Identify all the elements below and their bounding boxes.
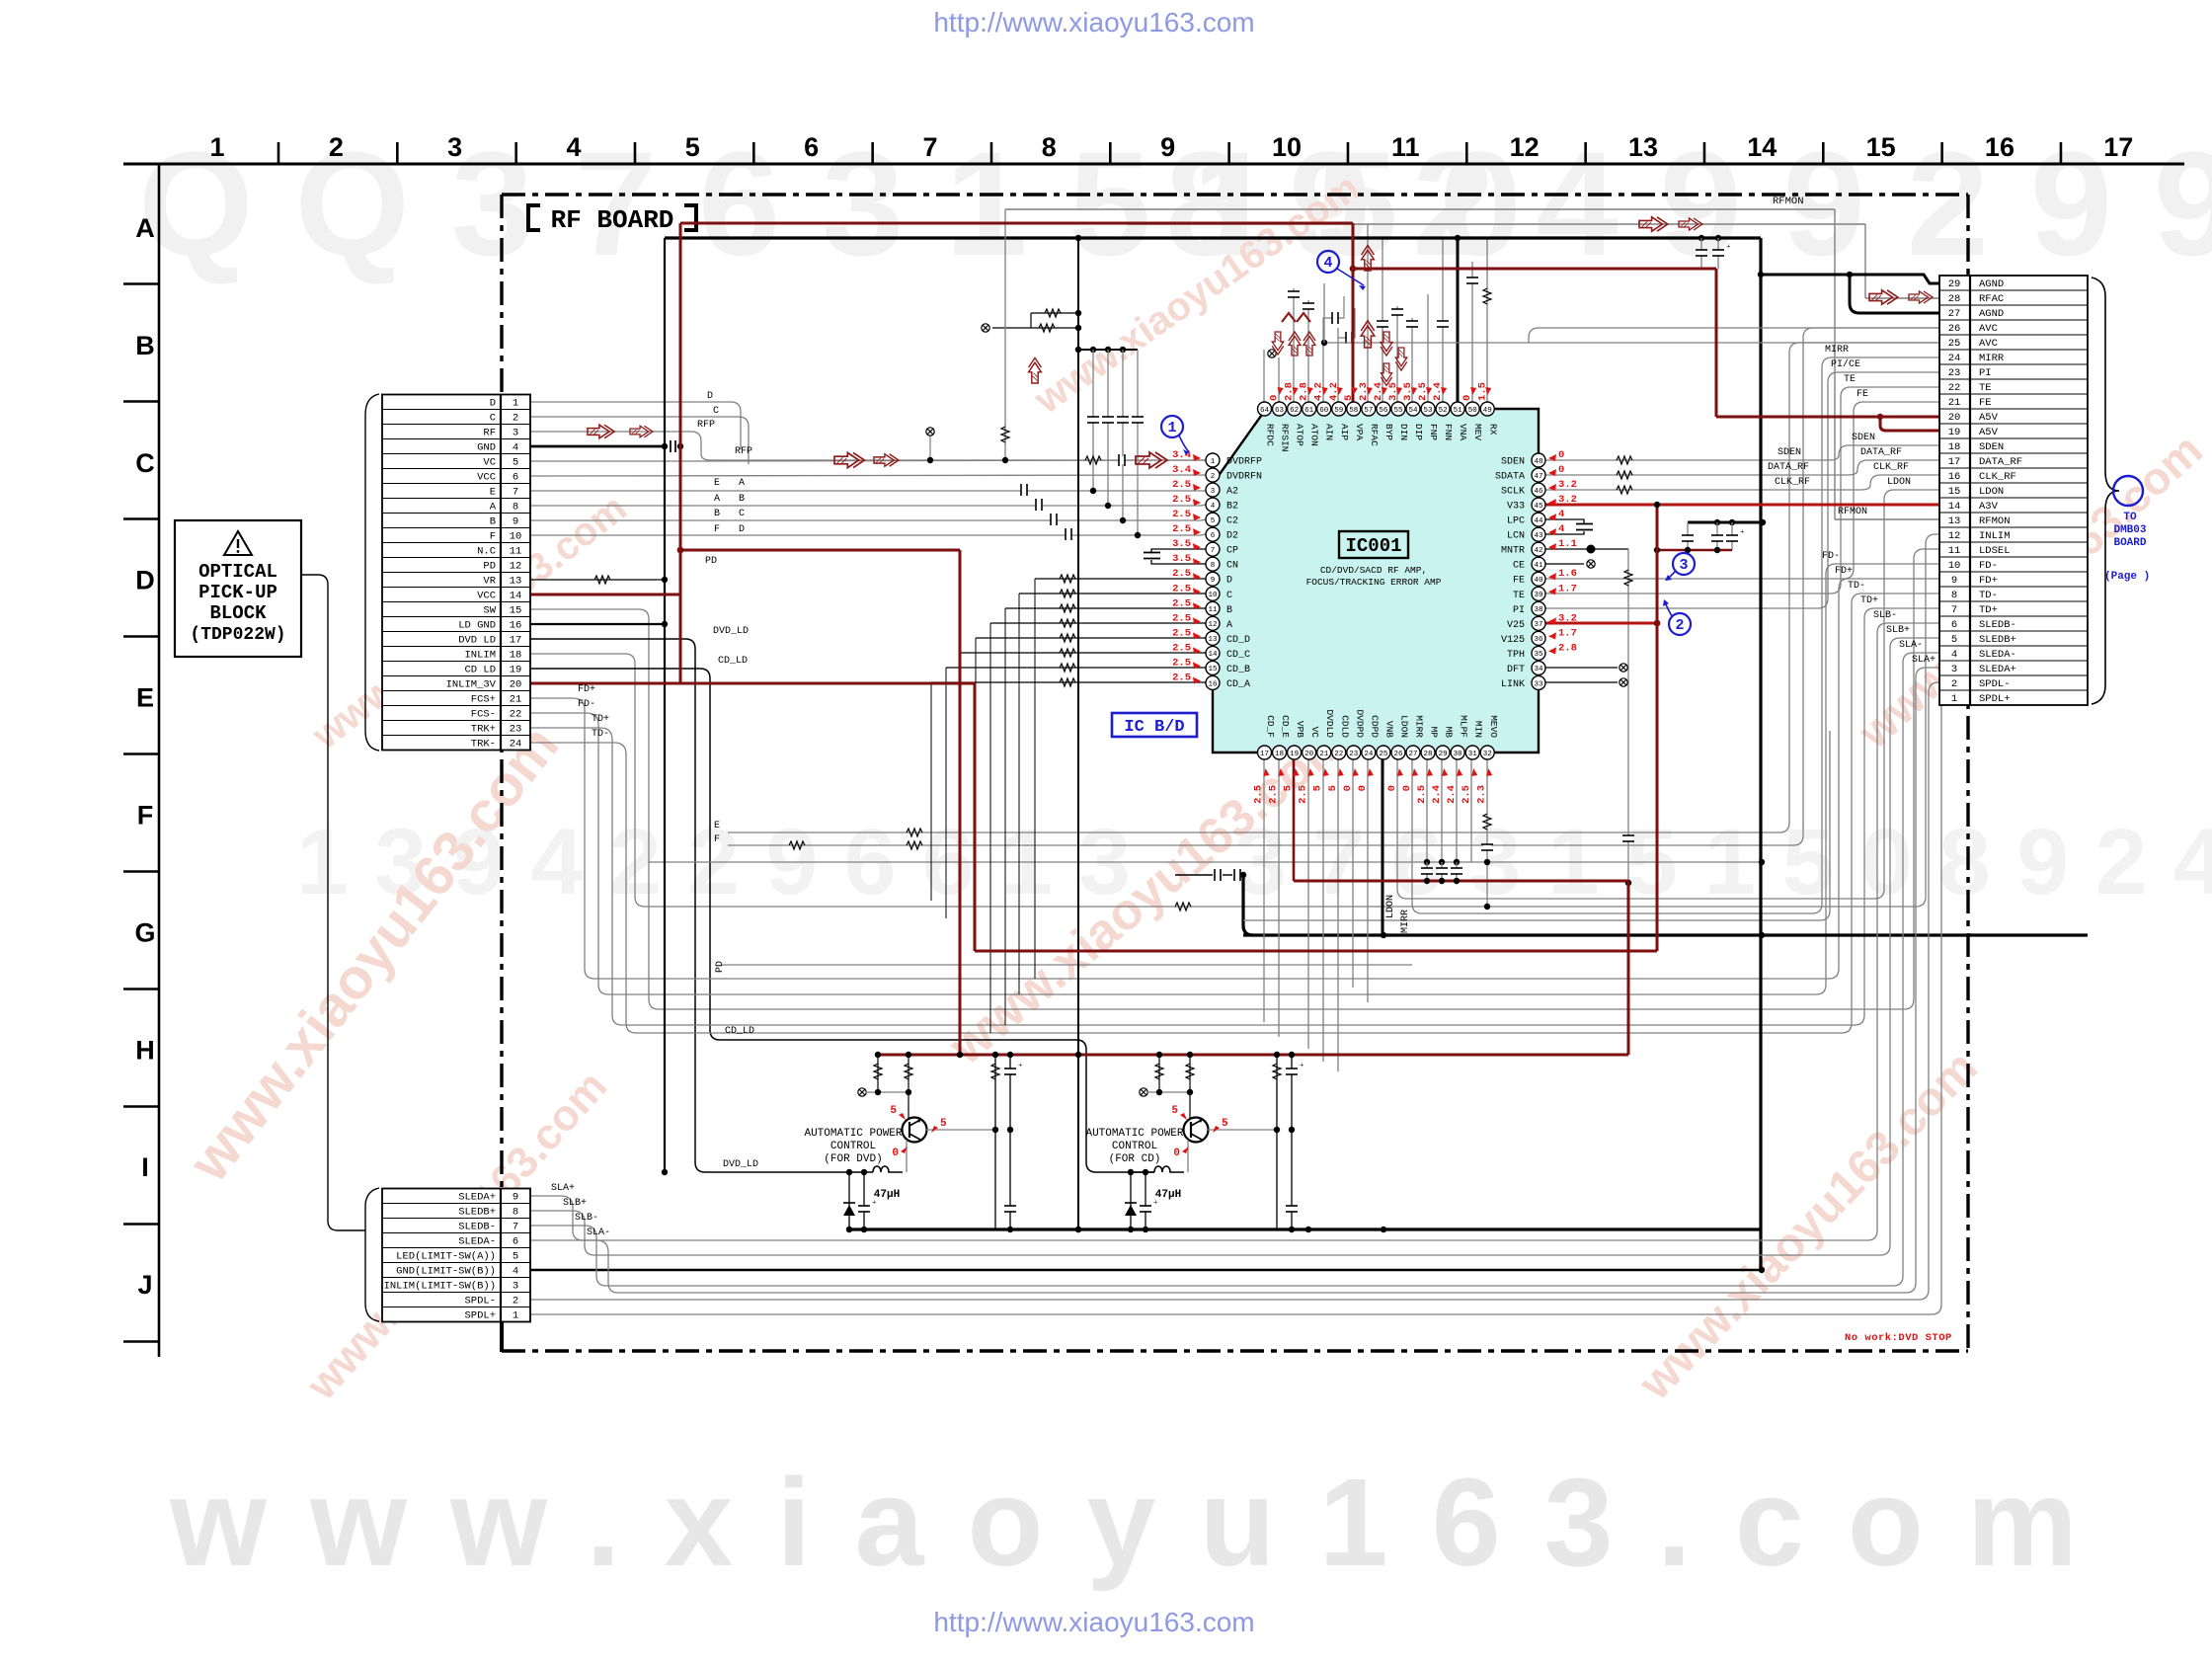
svg-text:IC001: IC001: [1345, 535, 1401, 557]
svg-text:42: 42: [1534, 547, 1542, 555]
svg-text:2.5: 2.5: [1172, 523, 1191, 535]
svg-text:29: 29: [1948, 278, 1961, 290]
svg-text:DIP: DIP: [1413, 424, 1424, 440]
svg-text:1.1: 1.1: [1558, 538, 1577, 550]
wire feeder verticals left of IC: [1034, 579, 1036, 979]
svg-text:CLK_RF: CLK_RF: [1873, 462, 1909, 473]
svg-text:E: E: [490, 487, 496, 499]
svg-text:26: 26: [1948, 323, 1961, 335]
svg-text:52: 52: [1439, 407, 1448, 415]
wire A row8 to pin4: [530, 505, 1206, 506]
svg-text:A: A: [1226, 620, 1232, 631]
svg-text:A: A: [490, 502, 497, 514]
wire MEVO pin32 drop: [1486, 759, 1488, 907]
svg-text:VC: VC: [1309, 727, 1320, 739]
svg-text:AIP: AIP: [1339, 424, 1350, 440]
wire ATOP pin62: [1293, 288, 1295, 409]
wire LD GND row16: [530, 623, 665, 625]
svg-text:(FOR CD): (FOR CD): [1109, 1153, 1161, 1165]
svg-text:V125: V125: [1501, 635, 1525, 646]
svg-text:11: 11: [1208, 606, 1218, 614]
svg-text:SLEDA+: SLEDA+: [1979, 664, 2016, 675]
svg-text:TRK+: TRK+: [471, 724, 496, 736]
svg-text:3: 3: [1679, 557, 1688, 574]
red y892 run: [1294, 880, 1628, 883]
svg-text:SLA+: SLA+: [1912, 655, 1935, 666]
svg-text:LCN: LCN: [1507, 531, 1525, 542]
svg-text:GND(LIMIT-SW(B)): GND(LIMIT-SW(B)): [396, 1266, 496, 1278]
svg-text:RF: RF: [483, 428, 496, 439]
transistor Q APC2: [1184, 1118, 1209, 1143]
cap polarized APC2: [1145, 1172, 1146, 1229]
svg-text:3: 3: [513, 1281, 518, 1293]
wire RFAC run to conn: [1128, 223, 1865, 225]
svg-text:ATON: ATON: [1309, 424, 1320, 446]
svg-text:15: 15: [1866, 132, 1896, 162]
svg-text:CN: CN: [1226, 561, 1238, 572]
svg-text:BLOCK: BLOCK: [209, 602, 267, 624]
svg-text:MB: MB: [1444, 727, 1455, 739]
svg-text:39: 39: [1534, 592, 1542, 599]
wire x1107 drop w/cap: [1092, 350, 1094, 491]
svg-text:51: 51: [1454, 407, 1463, 415]
wire DIN pin55: [1396, 306, 1398, 409]
wire IC bottom pin 17 drop: [1263, 759, 1265, 1022]
svg-text:2.5: 2.5: [1172, 583, 1191, 594]
svg-text:32: 32: [1483, 751, 1492, 758]
svg-text:No work:DVD STOP: No work:DVD STOP: [1845, 1332, 1952, 1344]
svg-text:RF BOARD: RF BOARD: [551, 205, 674, 235]
wire SW row15: [530, 549, 1939, 1009]
wire VNB pin25 drop: [1382, 759, 1384, 935]
svg-text:21: 21: [1948, 397, 1961, 409]
wire TRK- row24 to TD-: [530, 594, 1939, 1033]
svg-text:+: +: [1300, 1061, 1304, 1069]
IC001 bottom pins 17-32: [1258, 746, 1272, 759]
svg-text:FD-: FD-: [578, 699, 595, 710]
svg-text:19: 19: [1948, 427, 1961, 438]
svg-text:1: 1: [1951, 693, 1957, 705]
wire black branch to AGND27: [1850, 275, 1939, 313]
svg-text:9: 9: [513, 516, 518, 528]
svg-text:4: 4: [566, 132, 581, 162]
svg-text:53: 53: [1424, 407, 1434, 415]
svg-text:TE: TE: [1513, 591, 1525, 601]
wire IC bottom pin 20 drop: [1307, 759, 1309, 1049]
svg-text:14: 14: [1747, 132, 1777, 162]
svg-text:SLB+: SLB+: [1886, 625, 1910, 636]
wire RFAC drop to pin28: [1864, 224, 1866, 298]
svg-text:B: B: [739, 494, 745, 505]
svg-text:TE: TE: [1979, 382, 1992, 394]
wire D row1: [530, 402, 741, 449]
svg-text:FD+: FD+: [578, 684, 595, 695]
svg-text:B: B: [135, 331, 155, 360]
bypass cap cluster near V33: [1688, 521, 1763, 524]
svg-text:22: 22: [1334, 751, 1343, 758]
svg-text:CP: CP: [1226, 546, 1238, 557]
transistor Q APC1: [903, 1118, 927, 1143]
svg-text:17: 17: [2103, 132, 2133, 162]
wire AIN pin60: [1322, 328, 1324, 409]
svg-text:38: 38: [1534, 606, 1542, 614]
svg-text:AGND: AGND: [1979, 278, 2004, 290]
wire ATON pin61: [1307, 300, 1309, 409]
svg-text:0: 0: [1401, 785, 1413, 791]
wire RX pin49: [1486, 238, 1488, 409]
svg-text:DVDRFP: DVDRFP: [1226, 457, 1262, 468]
svg-text:20: 20: [510, 679, 522, 691]
svg-text:A: A: [135, 213, 155, 243]
red V25 pin37: [1545, 622, 1657, 625]
svg-text:SPDL+: SPDL+: [1979, 693, 2011, 705]
wire LDON from pin26: [1397, 490, 1939, 899]
svg-text:8: 8: [513, 1207, 518, 1219]
wire F row10 to pin6: [530, 534, 1206, 535]
red drop to A5V: [1715, 269, 1718, 417]
wire TE pin39: [1545, 387, 1939, 594]
svg-text:FD+: FD+: [1835, 566, 1853, 577]
svg-text:21: 21: [1319, 751, 1329, 758]
svg-text:F: F: [490, 531, 496, 543]
svg-text:CLK_RF: CLK_RF: [1979, 471, 2016, 483]
svg-text:SPDL-: SPDL-: [1979, 678, 2011, 690]
APC1 automatic power control: [877, 1055, 879, 1092]
svg-text:FE: FE: [1513, 576, 1525, 587]
connector CN bottom-left (sled/spindle): [382, 1189, 530, 1322]
svg-text:VC: VC: [483, 457, 496, 469]
svg-text:22: 22: [1948, 382, 1961, 394]
IC001 top pins 64-49: [1258, 402, 1272, 416]
svg-text:DVD_LD: DVD_LD: [723, 1159, 758, 1170]
svg-text:1.6: 1.6: [1558, 568, 1577, 580]
svg-text:2.3: 2.3: [1475, 785, 1487, 804]
wire x1092 long black vertical: [1077, 238, 1079, 1229]
wire RFAC pin57: [1367, 224, 1369, 409]
svg-text:0: 0: [1357, 785, 1369, 791]
svg-text:7: 7: [513, 487, 518, 499]
svg-text:25: 25: [1379, 751, 1388, 758]
svg-text:G: G: [134, 917, 155, 947]
svg-text:CE: CE: [1513, 561, 1525, 572]
red x972 drop: [959, 550, 962, 1055]
red x1678 vertical: [1656, 505, 1659, 951]
svg-text:CD_LD: CD_LD: [725, 1026, 754, 1037]
svg-text:FE: FE: [1856, 389, 1868, 400]
svg-text:2.8: 2.8: [1558, 642, 1577, 654]
svg-text:8: 8: [1042, 132, 1057, 162]
svg-text:12: 12: [1948, 530, 1961, 542]
wire IC left pin 14: [961, 652, 1206, 654]
wire RFMON top run: [1005, 208, 1835, 210]
svg-text:2.5: 2.5: [1172, 612, 1191, 624]
red top bus y226: [680, 222, 1353, 225]
svg-text:16: 16: [1948, 471, 1961, 483]
callout 1: [1161, 416, 1183, 437]
wire E row7 to pin3: [530, 490, 1206, 492]
APC2 automatic power control: [1158, 1055, 1160, 1092]
svg-text:TO: TO: [2123, 512, 2137, 523]
svg-text:+: +: [1153, 1198, 1158, 1207]
svg-text:3.5: 3.5: [1172, 553, 1191, 565]
svg-text:TRK-: TRK-: [471, 739, 496, 751]
svg-text:CD_A: CD_A: [1226, 679, 1250, 690]
svg-text:7: 7: [1951, 604, 1957, 616]
svg-text:SLEDB-: SLEDB-: [1979, 619, 2016, 631]
signal arrow into pin1: [1136, 452, 1167, 468]
red branch y272: [1353, 268, 1716, 271]
svg-text:2: 2: [329, 132, 344, 162]
svg-text:63: 63: [1275, 407, 1285, 415]
svg-text:CLK_RF: CLK_RF: [1775, 477, 1810, 488]
svg-text:RFAC: RFAC: [1369, 424, 1380, 446]
inductor 47uH APC2: [1128, 1166, 1184, 1172]
svg-text:PI: PI: [1979, 367, 1992, 379]
bracket bottom table: [365, 1188, 379, 1321]
svg-text:DFT: DFT: [1507, 665, 1525, 675]
connector CN right (to DMB03 board): [1939, 276, 2088, 705]
svg-text:2.5: 2.5: [1461, 785, 1472, 804]
svg-text:13: 13: [1208, 636, 1218, 644]
svg-text:FCS-: FCS-: [471, 709, 496, 721]
svg-text:3: 3: [447, 132, 462, 162]
ruler ticks: [277, 142, 280, 164]
svg-text:PD: PD: [715, 961, 726, 973]
svg-text:20: 20: [1304, 751, 1314, 758]
svg-text:9: 9: [1211, 577, 1216, 585]
red PD branch y557: [678, 549, 960, 552]
svg-text:6: 6: [1951, 619, 1957, 631]
wire FCS+ row21 to FD+: [530, 579, 1939, 979]
capacitor LPC/LCN bracket: [1545, 519, 1584, 523]
svg-text:11: 11: [1391, 132, 1420, 162]
svg-text:CONTROL: CONTROL: [1112, 1141, 1157, 1152]
wire CD LD row19: [530, 669, 1154, 1172]
svg-text:RX: RX: [1487, 424, 1498, 436]
svg-text:48: 48: [1534, 458, 1542, 466]
svg-text:MIRR: MIRR: [1825, 345, 1849, 356]
svg-text:DIN: DIN: [1398, 424, 1409, 440]
red VCC feed vertical x689: [679, 223, 682, 683]
red VCC row14 stub: [530, 594, 680, 596]
red APC supply bus y1068: [879, 1054, 1628, 1057]
svg-text:SPDL+: SPDL+: [464, 1310, 496, 1322]
svg-text:20: 20: [1948, 412, 1961, 424]
bracket left table: [365, 394, 379, 751]
svg-text:1: 1: [513, 398, 518, 410]
RF BOARD label: [526, 204, 539, 230]
svg-text:18: 18: [1948, 441, 1961, 453]
svg-text:LDSEL: LDSEL: [1979, 545, 2011, 557]
svg-text:FNP: FNP: [1428, 424, 1439, 440]
svg-text:SDEN: SDEN: [1501, 457, 1525, 468]
wire CE pin41: [1545, 563, 1584, 565]
svg-text:SDATA: SDATA: [1495, 472, 1525, 483]
svg-text:TD-: TD-: [1848, 581, 1865, 592]
svg-text:MIRR: MIRR: [1979, 353, 2005, 364]
wire SDEN pin48: [1545, 445, 1939, 460]
svg-text:61: 61: [1304, 407, 1314, 415]
svg-text:3: 3: [513, 428, 518, 439]
svg-text:2.5: 2.5: [1298, 785, 1309, 804]
svg-text:SLA-: SLA-: [1899, 640, 1923, 651]
svg-text:2: 2: [1951, 678, 1957, 690]
red VPB pin19 drop: [1293, 759, 1296, 881]
svg-text:3.2: 3.2: [1558, 479, 1577, 491]
svg-text:C: C: [739, 509, 745, 519]
svg-text:30: 30: [1454, 751, 1463, 758]
svg-text:FD-: FD-: [1822, 551, 1840, 562]
svg-text:13: 13: [1948, 515, 1961, 527]
svg-text:SLEDB+: SLEDB+: [1979, 634, 2016, 646]
svg-text:55: 55: [1393, 407, 1403, 415]
svg-text:VCC: VCC: [477, 472, 496, 484]
svg-text:CD_C: CD_C: [1226, 650, 1250, 661]
svg-text:54: 54: [1408, 407, 1418, 415]
svg-text:8: 8: [513, 502, 518, 514]
wire IC left pin 13: [976, 637, 1206, 639]
svg-text:DVDRFN: DVDRFN: [1226, 472, 1262, 483]
red drop to VPA pin58: [1352, 223, 1355, 409]
wire IC bottom pin 24 drop: [1367, 759, 1369, 1002]
svg-text:VPB: VPB: [1295, 721, 1305, 738]
wire SDATA pin47: [1545, 460, 1939, 475]
svg-text:PI: PI: [1513, 605, 1525, 616]
signal arrows on RF row: [588, 425, 614, 438]
svg-text:7: 7: [1211, 547, 1216, 555]
svg-text:B: B: [490, 516, 496, 528]
svg-text:37: 37: [1534, 621, 1542, 629]
svg-text:3.2: 3.2: [1558, 612, 1577, 624]
svg-text:4: 4: [513, 1266, 518, 1278]
svg-text:46: 46: [1534, 488, 1543, 496]
svg-text:TD+: TD+: [1860, 595, 1878, 606]
svg-text:SLB-: SLB-: [1873, 610, 1897, 621]
capacitors between y873 and red y892: [1426, 862, 1428, 881]
svg-text:2.5: 2.5: [1172, 657, 1191, 669]
wire SPDL+ bus: [530, 697, 1951, 1314]
capacitor CP/CN bracket: [1151, 549, 1206, 552]
svg-text:RFDC: RFDC: [1265, 424, 1276, 446]
svg-text:FOCUS/TRACKING ERROR AMP: FOCUS/TRACKING ERROR AMP: [1306, 577, 1442, 588]
svg-text:E: E: [714, 821, 720, 831]
wire IC bottom pin 29 drop: [1441, 759, 1443, 862]
svg-text:PD: PD: [483, 561, 496, 573]
svg-text:2.5: 2.5: [1416, 785, 1428, 804]
ground bus y1245: [846, 1227, 1762, 1230]
wire IC bottom pin 22 drop: [1337, 759, 1339, 1071]
series caps on A2/B2/C2/D2 lines: [1021, 484, 1028, 496]
svg-text:16: 16: [1985, 132, 2014, 162]
wire IC bottom pin 23 drop: [1352, 759, 1354, 988]
svg-text:RFMON: RFMON: [1838, 507, 1867, 517]
svg-text:41: 41: [1534, 562, 1543, 570]
wire IC left pin 16: [931, 681, 1206, 683]
svg-text:RFMON: RFMON: [1773, 196, 1804, 207]
svg-text:SLEDB+: SLEDB+: [458, 1207, 496, 1219]
vertical arrows above IC: [1362, 245, 1375, 271]
svg-text:E: E: [714, 478, 720, 489]
svg-text:VPA: VPA: [1354, 424, 1365, 440]
svg-text:DMB03: DMB03: [2113, 524, 2146, 536]
wire AIP pin59: [1337, 328, 1339, 409]
wire RFSIN pin63: [1278, 357, 1280, 409]
svg-text:CD LD: CD LD: [464, 665, 496, 676]
svg-text:2.5: 2.5: [1172, 672, 1191, 683]
svg-text:11: 11: [510, 546, 522, 558]
svg-text:AVC: AVC: [1979, 323, 1998, 335]
svg-text:SW: SW: [483, 605, 496, 617]
svg-text:BOARD: BOARD: [2113, 537, 2146, 549]
wire C row2: [530, 417, 749, 464]
svg-text:60: 60: [1319, 407, 1329, 415]
svg-text:1: 1: [1167, 420, 1176, 436]
wire x1122 drop w/cap: [1107, 350, 1109, 506]
svg-text:B: B: [1226, 605, 1232, 616]
warning triangle: [224, 531, 252, 555]
svg-text:47: 47: [1534, 473, 1542, 481]
svg-text:MNTR: MNTR: [1501, 546, 1525, 557]
svg-text:SLEDB-: SLEDB-: [458, 1222, 496, 1233]
svg-text:2.5: 2.5: [1172, 627, 1191, 639]
wire F long run: [728, 328, 1939, 845]
capacitors at black bus x1723/x1740: [1700, 238, 1702, 269]
svg-text:N.C: N.C: [477, 546, 496, 558]
svg-text:CONTROL: CONTROL: [830, 1141, 876, 1152]
svg-text:INLIM: INLIM: [464, 650, 496, 662]
svg-text:2.5: 2.5: [1253, 785, 1265, 804]
red V33 to A3V row14: [1545, 504, 1939, 507]
wire RF row3: [530, 432, 701, 454]
svg-text:0: 0: [1558, 449, 1564, 461]
svg-text:MLPF: MLPF: [1459, 715, 1469, 738]
svg-text:5: 5: [1312, 785, 1324, 791]
svg-text:4: 4: [513, 442, 518, 454]
svg-text:3.4: 3.4: [1172, 464, 1191, 476]
svg-text:CD_F: CD_F: [1265, 715, 1276, 738]
small bus y354: [1078, 349, 1138, 351]
svg-text:5: 5: [940, 1118, 947, 1130]
svg-text:21: 21: [510, 694, 522, 706]
svg-text:CD_E: CD_E: [1280, 715, 1291, 738]
svg-text:TPH: TPH: [1507, 650, 1525, 661]
wire thick GND row4 bottom table: [530, 1269, 1762, 1271]
svg-text:+: +: [872, 1198, 877, 1207]
inductor 47uH APC1: [846, 1166, 903, 1172]
wire IC left pin 15: [946, 667, 1206, 669]
wire thick black bus y241: [665, 236, 1761, 239]
svg-text:SLB-: SLB-: [575, 1213, 598, 1224]
svg-text:31: 31: [1468, 751, 1478, 758]
svg-text:7: 7: [513, 1222, 518, 1233]
svg-text:A3V: A3V: [1979, 501, 1999, 513]
svg-text:2.4: 2.4: [1446, 785, 1458, 804]
wire SCLK pin46: [1545, 475, 1939, 490]
svg-text:+: +: [1726, 242, 1731, 251]
wire x673 long black vertical: [664, 238, 666, 1172]
svg-text:34: 34: [1534, 666, 1543, 673]
svg-text:MIRR: MIRR: [1400, 910, 1411, 933]
svg-text:59: 59: [1334, 407, 1343, 415]
wire AVC26 stub: [1529, 328, 1939, 343]
solid border stub below bottom table: [500, 1321, 504, 1352]
svg-text:10: 10: [1272, 132, 1302, 162]
svg-text:28: 28: [1424, 751, 1433, 758]
wire SLEDA+ bus: [530, 623, 1939, 1240]
wire RFP main run to IC pin1: [530, 454, 1206, 461]
svg-text:CDLD: CDLD: [1339, 715, 1350, 738]
wire SLEDA- bus: [530, 668, 1939, 1293]
